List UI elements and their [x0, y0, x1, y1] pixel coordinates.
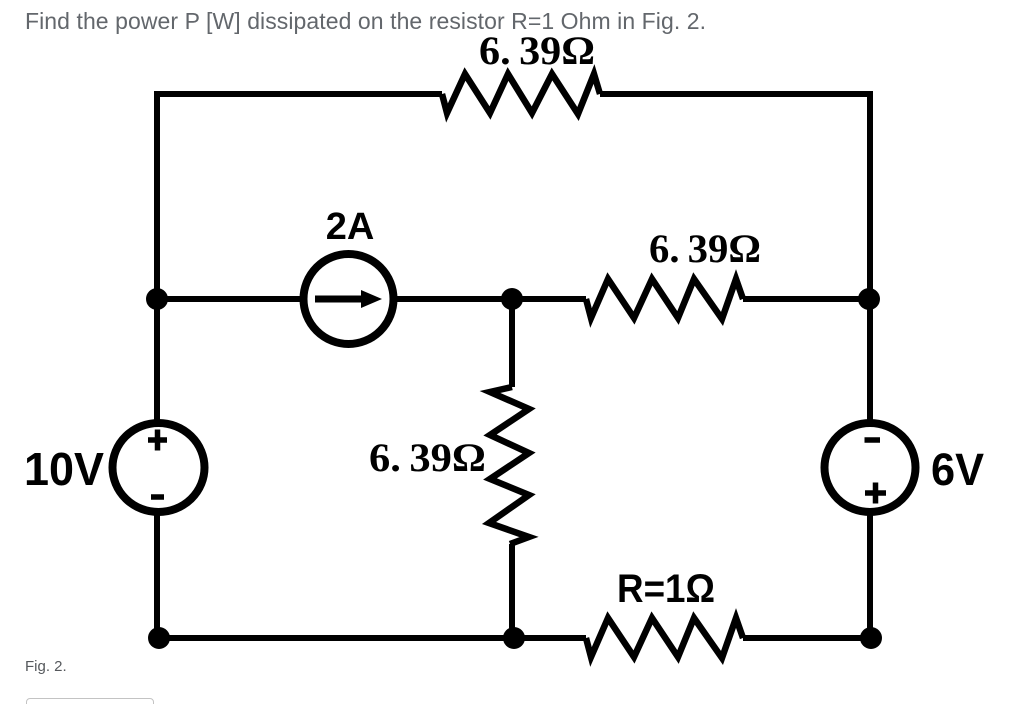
svg-text:6V: 6V — [931, 444, 984, 495]
svg-text:6. 39Ω: 6. 39Ω — [369, 435, 486, 480]
svg-text:R=1Ω: R=1Ω — [617, 567, 715, 611]
svg-text:2A: 2A — [326, 206, 375, 248]
svg-text:6. 39Ω: 6. 39Ω — [649, 226, 761, 271]
svg-text:6. 39Ω: 6. 39Ω — [479, 28, 595, 73]
svg-text:10V: 10V — [24, 443, 104, 495]
